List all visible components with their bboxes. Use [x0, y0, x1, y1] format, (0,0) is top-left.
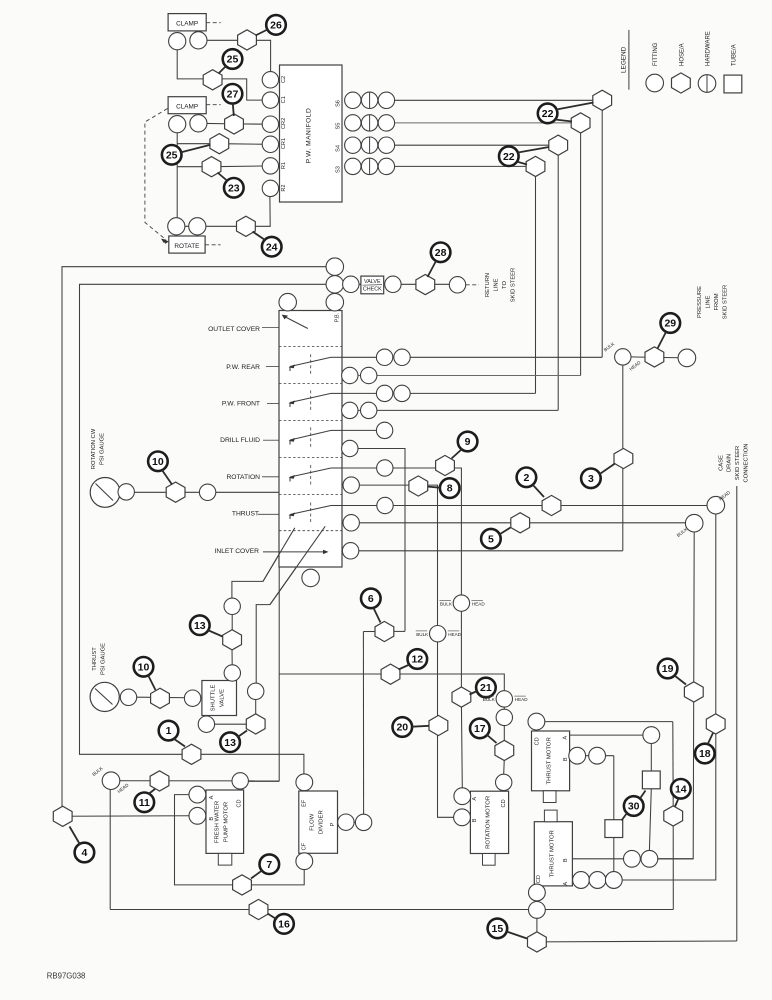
- svg-text:10: 10: [152, 456, 164, 468]
- svg-text:22: 22: [542, 108, 554, 120]
- svg-text:PSI GAUGE: PSI GAUGE: [101, 643, 107, 675]
- svg-text:RETURN: RETURN: [485, 273, 491, 297]
- svg-text:HEAD: HEAD: [472, 601, 485, 606]
- svg-text:ROTATION CW: ROTATION CW: [91, 428, 97, 469]
- svg-text:12: 12: [411, 654, 423, 666]
- svg-text:B: B: [563, 757, 569, 761]
- svg-text:THRUST MOTOR: THRUST MOTOR: [547, 737, 553, 784]
- svg-text:S5: S5: [336, 123, 342, 130]
- svg-text:1: 1: [166, 725, 172, 737]
- svg-text:S3: S3: [336, 166, 342, 173]
- svg-text:A: A: [562, 736, 568, 740]
- svg-text:CD: CD: [536, 875, 542, 883]
- svg-text:A: A: [563, 882, 569, 886]
- svg-text:EF: EF: [302, 799, 308, 807]
- svg-text:FROM: FROM: [714, 293, 720, 310]
- svg-text:ROTATE: ROTATE: [174, 243, 199, 250]
- svg-text:CHECK: CHECK: [363, 286, 382, 292]
- svg-text:LINE: LINE: [706, 295, 712, 308]
- svg-text:A: A: [472, 797, 478, 801]
- svg-text:THRUST MOTOR: THRUST MOTOR: [549, 830, 555, 877]
- svg-text:26: 26: [270, 20, 282, 32]
- svg-text:A: A: [209, 795, 215, 799]
- svg-text:TO: TO: [502, 281, 508, 289]
- svg-text:INLET COVER: INLET COVER: [215, 548, 260, 555]
- svg-text:19: 19: [662, 663, 674, 675]
- svg-text:13: 13: [194, 620, 206, 632]
- svg-text:20: 20: [396, 722, 408, 734]
- svg-text:17: 17: [474, 723, 486, 735]
- svg-text:S4: S4: [336, 145, 342, 152]
- svg-text:25: 25: [166, 149, 178, 161]
- svg-text:C1: C1: [281, 96, 287, 103]
- svg-text:DRILL FLUID: DRILL FLUID: [220, 437, 260, 444]
- svg-text:P.B.: P.B.: [335, 313, 341, 322]
- svg-text:30: 30: [628, 801, 640, 813]
- svg-text:DRAIN: DRAIN: [727, 454, 733, 472]
- svg-text:24: 24: [266, 241, 278, 253]
- svg-text:B: B: [209, 817, 215, 821]
- svg-text:PRESSURE: PRESSURE: [697, 286, 703, 318]
- svg-text:SKID STEER: SKID STEER: [723, 285, 729, 319]
- svg-text:5: 5: [488, 533, 494, 545]
- svg-text:FLOW: FLOW: [310, 813, 316, 830]
- svg-text:2: 2: [523, 472, 529, 484]
- svg-text:7: 7: [266, 859, 272, 871]
- svg-text:CR2: CR2: [281, 118, 287, 129]
- svg-text:SKID STEER: SKID STEER: [735, 446, 741, 480]
- svg-text:P: P: [330, 822, 336, 826]
- svg-text:23: 23: [228, 182, 240, 194]
- svg-text:TUBE/A: TUBE/A: [731, 44, 737, 66]
- svg-text:15: 15: [492, 923, 504, 935]
- svg-text:R1: R1: [281, 162, 287, 169]
- svg-text:28: 28: [435, 247, 447, 259]
- svg-text:18: 18: [699, 748, 711, 760]
- svg-text:FITTING: FITTING: [653, 42, 659, 66]
- svg-text:CR1: CR1: [281, 138, 287, 149]
- svg-text:10: 10: [138, 661, 150, 673]
- svg-text:SHUTTLE: SHUTTLE: [211, 685, 217, 712]
- svg-text:DIVIDER: DIVIDER: [319, 810, 325, 834]
- svg-text:HARDWARE: HARDWARE: [706, 31, 712, 66]
- svg-text:21: 21: [480, 682, 492, 694]
- svg-text:LINE: LINE: [494, 278, 500, 291]
- svg-text:ROTATION: ROTATION: [226, 474, 260, 481]
- svg-text:PUMP MOTOR: PUMP MOTOR: [224, 802, 230, 842]
- svg-text:VALVE: VALVE: [364, 279, 381, 285]
- svg-text:22: 22: [503, 151, 515, 163]
- svg-text:B: B: [563, 858, 569, 862]
- svg-text:P.W. REAR: P.W. REAR: [226, 364, 260, 371]
- svg-text:THRUST: THRUST: [232, 511, 259, 518]
- svg-text:CLAMP: CLAMP: [176, 104, 198, 111]
- svg-text:PSI GAUGE: PSI GAUGE: [100, 433, 106, 465]
- svg-text:SKID STEER: SKID STEER: [511, 268, 517, 302]
- svg-text:9: 9: [465, 436, 471, 448]
- svg-text:HOSE/A: HOSE/A: [679, 43, 685, 66]
- svg-text:S6: S6: [336, 100, 342, 107]
- svg-text:BULK: BULK: [440, 601, 453, 606]
- svg-text:8: 8: [447, 483, 453, 495]
- svg-text:16: 16: [278, 919, 290, 931]
- svg-text:BULK: BULK: [416, 632, 429, 637]
- svg-text:BULK: BULK: [483, 697, 496, 702]
- svg-text:3: 3: [588, 473, 594, 485]
- svg-text:FRESH WATER: FRESH WATER: [215, 801, 221, 843]
- svg-text:VALVE: VALVE: [220, 689, 226, 707]
- svg-text:CD: CD: [501, 799, 507, 807]
- svg-text:LEGEND: LEGEND: [621, 46, 628, 73]
- svg-text:R2: R2: [281, 184, 287, 191]
- svg-text:OUTLET COVER: OUTLET COVER: [208, 326, 260, 333]
- svg-text:27: 27: [227, 88, 239, 100]
- svg-text:ROTATION MOTOR: ROTATION MOTOR: [486, 796, 492, 849]
- svg-text:THRUST: THRUST: [92, 647, 98, 671]
- svg-text:HEAD: HEAD: [448, 632, 461, 637]
- svg-text:29: 29: [664, 318, 676, 330]
- svg-text:CASE: CASE: [719, 455, 725, 471]
- svg-text:4: 4: [81, 847, 87, 859]
- svg-text:P.W. FRONT: P.W. FRONT: [222, 400, 260, 407]
- svg-text:25: 25: [227, 54, 239, 66]
- svg-text:13: 13: [224, 737, 236, 749]
- svg-text:P.W. MANIFOLD: P.W. MANIFOLD: [306, 108, 313, 163]
- svg-text:CONNECTION: CONNECTION: [744, 444, 750, 483]
- svg-text:RB97G038: RB97G038: [47, 972, 86, 981]
- svg-text:CD: CD: [237, 799, 243, 807]
- svg-text:11: 11: [139, 797, 150, 809]
- svg-text:C2: C2: [281, 76, 287, 83]
- svg-text:HEAD: HEAD: [515, 697, 528, 702]
- svg-text:14: 14: [675, 783, 687, 795]
- svg-text:CF: CF: [302, 842, 308, 850]
- svg-text:6: 6: [368, 593, 374, 605]
- svg-text:CD: CD: [534, 737, 540, 745]
- svg-text:CLAMP: CLAMP: [176, 21, 198, 28]
- svg-text:B: B: [472, 818, 478, 822]
